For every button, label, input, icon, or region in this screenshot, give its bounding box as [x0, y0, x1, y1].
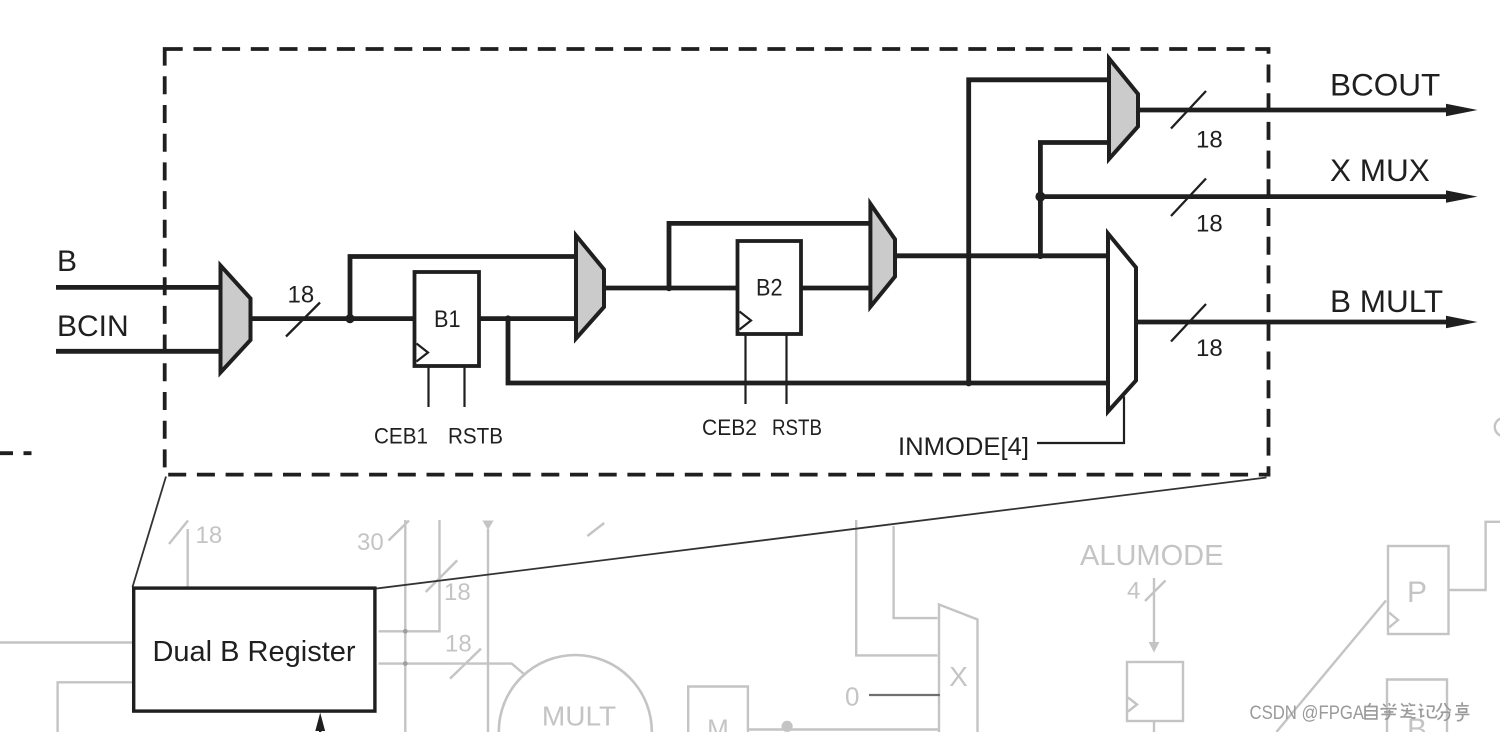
svg-text:18: 18: [1196, 127, 1223, 154]
svg-text:RSTB: RSTB: [772, 415, 822, 440]
svg-text:18: 18: [445, 631, 472, 658]
svg-text:CEB1: CEB1: [374, 424, 428, 449]
svg-text:B1: B1: [434, 306, 461, 333]
svg-text:CEB2: CEB2: [702, 415, 757, 440]
svg-text:B MULT: B MULT: [1330, 283, 1443, 319]
svg-text:Dual B Register: Dual B Register: [152, 636, 355, 668]
svg-text:18: 18: [444, 579, 471, 606]
svg-text:CSDN @FPGA: CSDN @FPGA: [1250, 702, 1365, 724]
svg-text:X MUX: X MUX: [1330, 152, 1430, 188]
svg-text:18: 18: [196, 522, 223, 549]
svg-text:MULT: MULT: [542, 701, 616, 732]
svg-text:18: 18: [288, 282, 315, 309]
svg-text:B2: B2: [756, 275, 783, 302]
svg-text:18: 18: [1196, 211, 1223, 238]
svg-text:X: X: [949, 661, 968, 692]
svg-text:BCOUT: BCOUT: [1330, 67, 1440, 103]
svg-text:BCIN: BCIN: [57, 310, 129, 343]
svg-text:M: M: [707, 714, 729, 732]
svg-text:30: 30: [357, 529, 384, 556]
svg-text:P: P: [1407, 576, 1427, 609]
svg-text:4: 4: [1127, 578, 1140, 605]
svg-text:0: 0: [845, 682, 859, 712]
svg-text:ALUMODE: ALUMODE: [1080, 540, 1223, 572]
svg-text:INMODE[4]: INMODE[4]: [898, 433, 1029, 461]
svg-text:B: B: [57, 245, 77, 278]
svg-text:RSTB: RSTB: [448, 424, 503, 449]
svg-text:18: 18: [1196, 335, 1223, 362]
